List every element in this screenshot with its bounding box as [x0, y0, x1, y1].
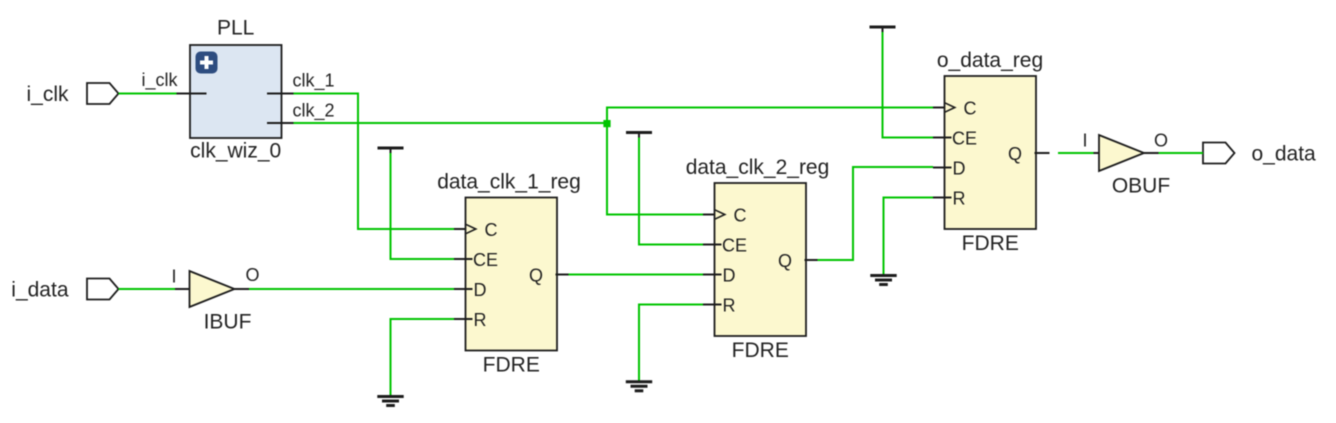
svg-text:i_clk: i_clk: [26, 83, 69, 106]
svg-text:I: I: [171, 267, 176, 287]
svg-text:CE: CE: [952, 129, 977, 149]
svg-text:Q: Q: [529, 266, 543, 286]
svg-text:C: C: [734, 206, 747, 226]
svg-text:R: R: [474, 310, 487, 330]
svg-text:data_clk_2_reg: data_clk_2_reg: [686, 156, 830, 179]
svg-text:PLL: PLL: [217, 17, 254, 40]
svg-text:Q: Q: [778, 251, 792, 271]
svg-text:C: C: [964, 99, 977, 119]
svg-text:FDRE: FDRE: [732, 339, 789, 362]
svg-text:IBUF: IBUF: [204, 311, 252, 334]
svg-text:o_data: o_data: [1252, 143, 1317, 166]
svg-text:O: O: [1154, 131, 1168, 151]
svg-text:I: I: [1082, 131, 1087, 151]
svg-text:clk_1: clk_1: [293, 71, 335, 92]
svg-text:o_data_reg: o_data_reg: [937, 49, 1043, 72]
svg-text:i_data: i_data: [11, 279, 69, 302]
svg-text:FDRE: FDRE: [962, 232, 1019, 255]
svg-text:clk_2: clk_2: [293, 101, 335, 122]
svg-text:C: C: [485, 220, 498, 240]
svg-text:D: D: [474, 280, 487, 300]
svg-text:clk_wiz_0: clk_wiz_0: [190, 140, 281, 163]
svg-text:D: D: [953, 159, 966, 179]
svg-text:O: O: [246, 265, 260, 285]
svg-text:i_clk: i_clk: [141, 70, 178, 91]
svg-text:OBUF: OBUF: [1112, 175, 1170, 198]
svg-text:R: R: [953, 189, 966, 209]
svg-text:R: R: [723, 296, 736, 316]
svg-text:CE: CE: [473, 250, 498, 270]
svg-text:CE: CE: [722, 236, 747, 256]
svg-text:FDRE: FDRE: [483, 354, 540, 377]
svg-text:D: D: [723, 266, 736, 286]
svg-text:Q: Q: [1008, 144, 1022, 164]
svg-text:data_clk_1_reg: data_clk_1_reg: [437, 171, 581, 194]
